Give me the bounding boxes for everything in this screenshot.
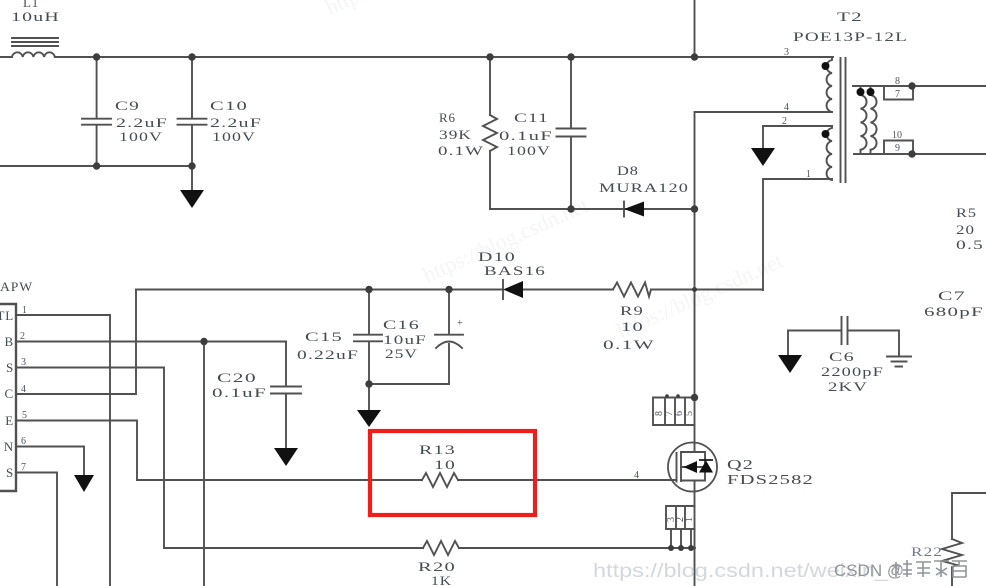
svg-text:C: C	[5, 386, 14, 401]
svg-text:5: 5	[22, 410, 27, 421]
svg-text:4: 4	[634, 470, 639, 481]
svg-text:CSDN @: CSDN @	[834, 561, 904, 580]
svg-text:C20: C20	[217, 370, 257, 385]
svg-text:1K: 1K	[431, 573, 452, 586]
svg-text:S: S	[6, 360, 14, 375]
svg-text:E: E	[5, 413, 14, 428]
svg-text:0.5: 0.5	[956, 237, 984, 252]
svg-text:4: 4	[21, 384, 26, 395]
svg-text:0.1W: 0.1W	[438, 143, 484, 158]
svg-text:R9: R9	[620, 303, 644, 318]
svg-text:6: 6	[21, 436, 26, 447]
svg-text:MURA120: MURA120	[599, 180, 689, 195]
svg-text:C6: C6	[829, 349, 855, 364]
svg-text:680pF: 680pF	[924, 304, 984, 319]
svg-text:8: 8	[895, 76, 900, 87]
svg-text:0.1uF: 0.1uF	[499, 128, 553, 143]
svg-text:2: 2	[782, 116, 787, 127]
svg-text:C7: C7	[938, 288, 966, 303]
svg-text:3: 3	[21, 357, 26, 368]
svg-text:+: +	[457, 318, 463, 329]
svg-text:FDS2582: FDS2582	[727, 473, 814, 488]
svg-text:R13: R13	[419, 442, 456, 457]
svg-text:20: 20	[956, 222, 975, 237]
svg-text:2.2uF: 2.2uF	[116, 115, 168, 130]
svg-text:100V: 100V	[119, 129, 163, 144]
svg-text:4: 4	[784, 102, 789, 113]
svg-text:100V: 100V	[507, 143, 551, 158]
svg-text:Q2: Q2	[727, 458, 754, 473]
svg-text:10uF: 10uF	[383, 332, 427, 347]
svg-text:B: B	[5, 334, 14, 349]
svg-text:39K: 39K	[439, 127, 472, 142]
svg-text:1: 1	[22, 305, 27, 316]
svg-text:2KV: 2KV	[828, 379, 868, 394]
svg-text:10: 10	[434, 457, 456, 472]
svg-text:D8: D8	[617, 163, 639, 178]
svg-text:APW: APW	[0, 279, 33, 294]
svg-text:1: 1	[684, 517, 695, 522]
svg-text:TL: TL	[0, 308, 14, 323]
svg-text:POE13P-12L: POE13P-12L	[793, 29, 908, 44]
svg-text:R22: R22	[911, 544, 943, 559]
svg-text:C9: C9	[115, 98, 140, 113]
svg-text:T2: T2	[837, 9, 863, 24]
svg-text:100V: 100V	[212, 129, 256, 144]
svg-text:0.1W: 0.1W	[603, 337, 655, 352]
svg-text:10: 10	[621, 319, 644, 334]
svg-text:R5: R5	[956, 205, 977, 220]
svg-text:2200pF: 2200pF	[821, 364, 884, 379]
svg-text:0.1uF: 0.1uF	[212, 385, 267, 400]
svg-text:C11: C11	[514, 110, 549, 125]
svg-text:C16: C16	[383, 317, 420, 332]
svg-text:25V: 25V	[385, 346, 418, 361]
svg-text:R6: R6	[439, 110, 456, 125]
svg-text:D10: D10	[478, 249, 516, 264]
svg-text:S: S	[6, 465, 14, 480]
svg-text:0.22uF: 0.22uF	[297, 347, 359, 362]
svg-text:3: 3	[784, 47, 789, 58]
svg-text:C10: C10	[210, 98, 248, 113]
svg-text:2: 2	[20, 331, 25, 342]
svg-text:9: 9	[895, 143, 900, 154]
svg-text:10uH: 10uH	[11, 9, 60, 24]
svg-text:2.2uF: 2.2uF	[210, 115, 262, 130]
svg-text:10: 10	[892, 130, 902, 141]
svg-text:N: N	[4, 439, 14, 454]
svg-text:5: 5	[684, 411, 695, 416]
svg-text:C15: C15	[305, 329, 343, 344]
svg-text:R20: R20	[418, 559, 456, 574]
svg-text:7: 7	[895, 89, 900, 100]
svg-text:BAS16: BAS16	[484, 263, 546, 278]
svg-text:1: 1	[806, 169, 811, 180]
svg-text:7: 7	[21, 462, 26, 473]
